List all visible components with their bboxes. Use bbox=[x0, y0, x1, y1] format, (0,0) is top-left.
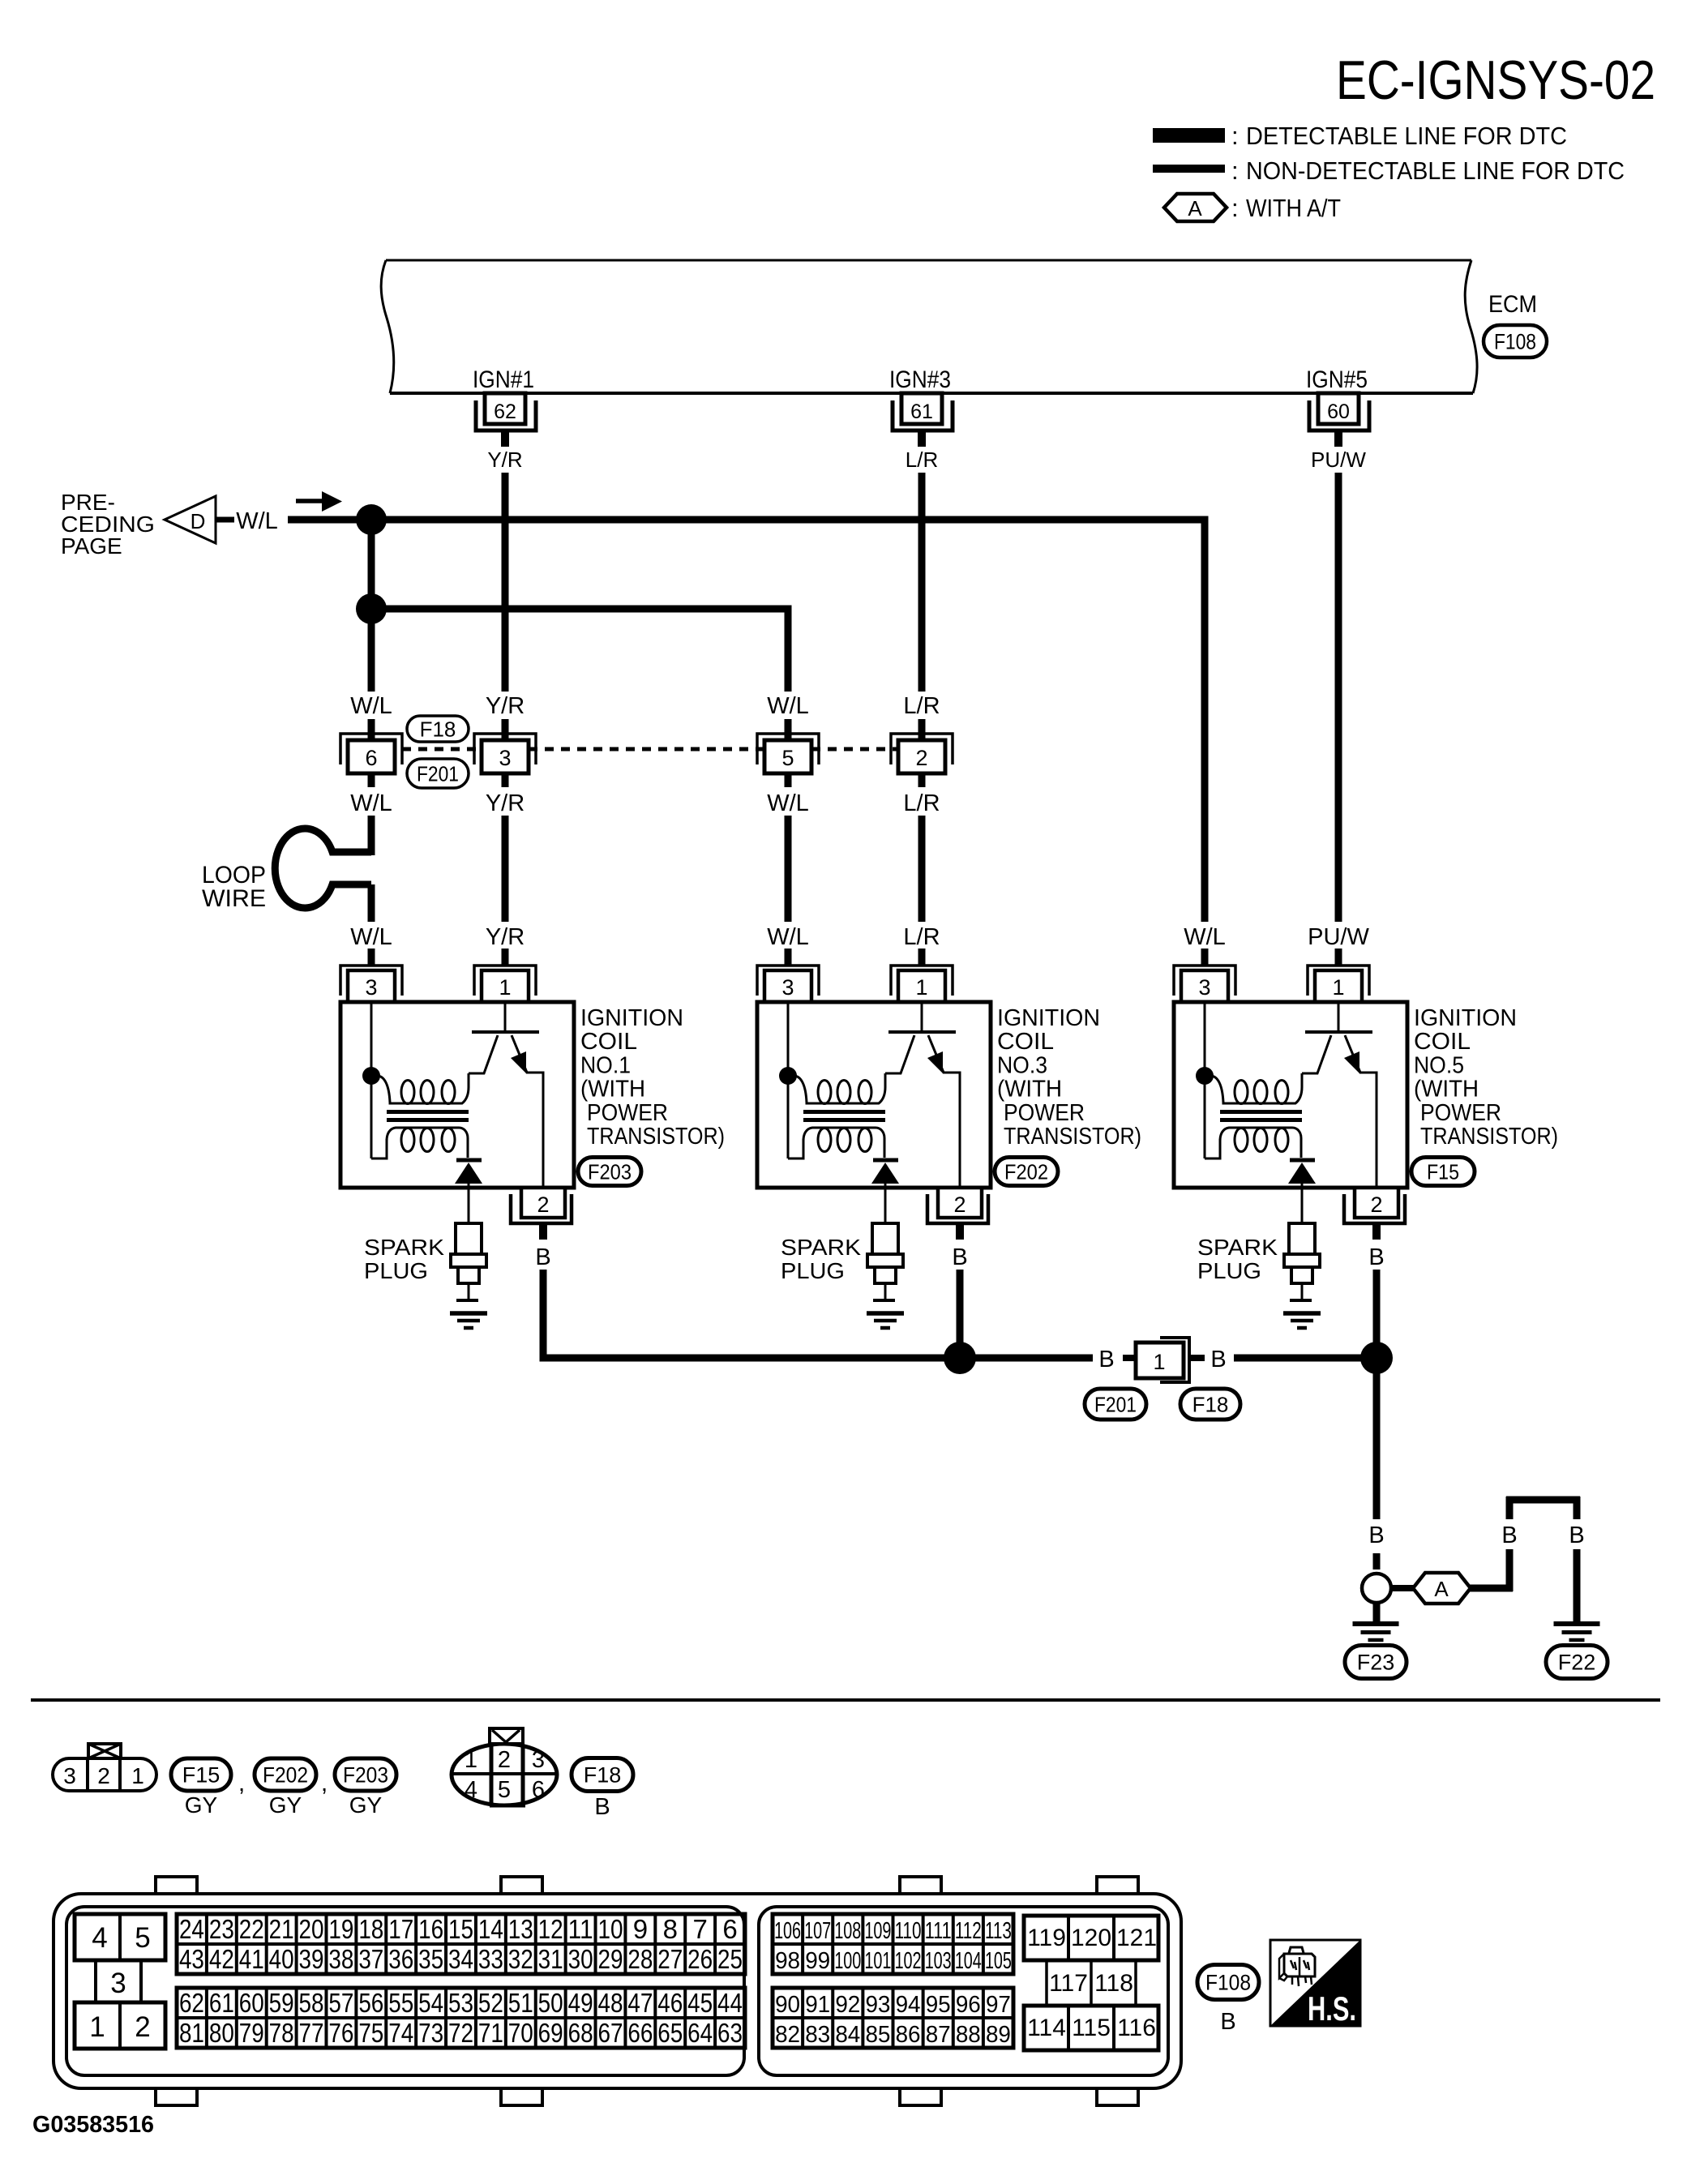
svg-text:2: 2 bbox=[97, 1763, 110, 1788]
svg-text:107: 107 bbox=[804, 1918, 831, 1944]
svg-text:118: 118 bbox=[1094, 1970, 1133, 1997]
svg-text:H.S.: H.S. bbox=[1308, 1989, 1356, 2028]
svg-text:121: 121 bbox=[1116, 1925, 1157, 1951]
svg-text:B: B bbox=[1368, 1244, 1384, 1270]
svg-text:51: 51 bbox=[508, 1988, 533, 2018]
svg-text:W/L: W/L bbox=[767, 790, 809, 816]
svg-text:PAGE: PAGE bbox=[61, 533, 122, 559]
svg-text:6: 6 bbox=[722, 1914, 737, 1944]
svg-text:61: 61 bbox=[209, 1988, 234, 2018]
svg-text:TRANSISTOR): TRANSISTOR) bbox=[1420, 1124, 1558, 1150]
svg-text:,: , bbox=[321, 1770, 328, 1796]
svg-text:GY: GY bbox=[269, 1792, 302, 1818]
svg-text:35: 35 bbox=[418, 1944, 443, 1974]
svg-text:106: 106 bbox=[774, 1918, 801, 1944]
svg-text:TRANSISTOR): TRANSISTOR) bbox=[587, 1124, 725, 1150]
svg-text:POWER: POWER bbox=[1420, 1100, 1501, 1126]
svg-text:27: 27 bbox=[657, 1944, 683, 1974]
svg-text:109: 109 bbox=[864, 1918, 891, 1944]
svg-text:1: 1 bbox=[1332, 975, 1344, 1000]
svg-text:F203: F203 bbox=[588, 1159, 632, 1184]
svg-text:WIRE: WIRE bbox=[202, 885, 266, 912]
svg-text:117: 117 bbox=[1049, 1970, 1088, 1997]
svg-text:W/L: W/L bbox=[236, 508, 278, 534]
svg-text:108: 108 bbox=[834, 1918, 861, 1944]
svg-text:13: 13 bbox=[508, 1914, 533, 1944]
svg-text:37: 37 bbox=[358, 1944, 383, 1974]
svg-text:3: 3 bbox=[365, 975, 377, 1000]
svg-text:1: 1 bbox=[1153, 1350, 1165, 1374]
svg-text:PLUG: PLUG bbox=[781, 1258, 845, 1283]
svg-text:,: , bbox=[238, 1770, 245, 1796]
svg-text:17: 17 bbox=[388, 1914, 413, 1944]
svg-text:39: 39 bbox=[299, 1944, 324, 1974]
svg-text:F202: F202 bbox=[263, 1763, 308, 1788]
svg-text:F202: F202 bbox=[1004, 1159, 1048, 1184]
svg-text:TRANSISTOR): TRANSISTOR) bbox=[1004, 1124, 1141, 1150]
svg-text:NON-DETECTABLE LINE FOR DTC: NON-DETECTABLE LINE FOR DTC bbox=[1246, 156, 1625, 185]
svg-text:B: B bbox=[1220, 2009, 1235, 2035]
svg-text:114: 114 bbox=[1027, 2015, 1066, 2041]
svg-text:97: 97 bbox=[986, 1992, 1011, 2018]
svg-text:A: A bbox=[1188, 196, 1202, 221]
svg-text:5: 5 bbox=[498, 1777, 511, 1803]
svg-text:113: 113 bbox=[985, 1918, 1012, 1944]
svg-text:L/R: L/R bbox=[906, 448, 938, 472]
svg-text:F18: F18 bbox=[420, 717, 456, 741]
svg-text:102: 102 bbox=[895, 1948, 922, 1974]
svg-text:110: 110 bbox=[895, 1918, 922, 1944]
svg-text:COIL: COIL bbox=[580, 1029, 637, 1055]
svg-text:3: 3 bbox=[499, 746, 511, 770]
svg-text:2: 2 bbox=[1370, 1193, 1382, 1217]
svg-text:82: 82 bbox=[775, 2022, 800, 2048]
svg-text:8: 8 bbox=[663, 1914, 678, 1944]
svg-text:69: 69 bbox=[538, 2018, 563, 2048]
svg-text:L/R: L/R bbox=[903, 693, 940, 719]
svg-text:76: 76 bbox=[328, 2018, 353, 2048]
svg-text:2: 2 bbox=[498, 1747, 511, 1773]
svg-text:COIL: COIL bbox=[1414, 1029, 1471, 1055]
svg-text:33: 33 bbox=[478, 1944, 503, 1974]
svg-text:NO.3: NO.3 bbox=[997, 1052, 1047, 1078]
svg-text:31: 31 bbox=[538, 1944, 563, 1974]
svg-text:W/L: W/L bbox=[350, 693, 392, 719]
svg-text:B: B bbox=[1098, 1347, 1114, 1372]
svg-text:2: 2 bbox=[135, 2011, 150, 2043]
svg-text:68: 68 bbox=[568, 2018, 593, 2048]
svg-text:SPARK: SPARK bbox=[364, 1235, 444, 1260]
svg-text:84: 84 bbox=[835, 2022, 860, 2048]
svg-text:20: 20 bbox=[299, 1914, 324, 1944]
svg-text:77: 77 bbox=[299, 2018, 324, 2048]
svg-text:1: 1 bbox=[131, 1763, 144, 1788]
svg-text:115: 115 bbox=[1072, 2015, 1111, 2041]
svg-text:2: 2 bbox=[537, 1193, 549, 1217]
svg-text:64: 64 bbox=[687, 2018, 713, 2048]
svg-text:3: 3 bbox=[1198, 975, 1210, 1000]
svg-text:66: 66 bbox=[627, 2018, 653, 2048]
svg-text:41: 41 bbox=[239, 1944, 264, 1974]
svg-text:55: 55 bbox=[388, 1988, 413, 2018]
svg-text:F203: F203 bbox=[343, 1763, 388, 1788]
svg-text:F18: F18 bbox=[1192, 1392, 1229, 1416]
svg-text:44: 44 bbox=[717, 1988, 743, 2018]
svg-text:(WITH: (WITH bbox=[997, 1077, 1062, 1103]
svg-text:F201: F201 bbox=[417, 761, 459, 786]
svg-text:45: 45 bbox=[687, 1988, 713, 2018]
svg-text:58: 58 bbox=[299, 1988, 324, 2018]
svg-text:38: 38 bbox=[328, 1944, 353, 1974]
svg-text:80: 80 bbox=[209, 2018, 234, 2048]
svg-text:103: 103 bbox=[925, 1948, 952, 1974]
svg-text:12: 12 bbox=[538, 1914, 563, 1944]
svg-text:F23: F23 bbox=[1357, 1651, 1395, 1675]
svg-text:B: B bbox=[1501, 1522, 1517, 1548]
svg-text:1: 1 bbox=[499, 975, 511, 1000]
svg-text:101: 101 bbox=[864, 1948, 891, 1974]
svg-text:2: 2 bbox=[915, 746, 927, 770]
svg-text:48: 48 bbox=[597, 1988, 623, 2018]
svg-text:3: 3 bbox=[110, 1968, 126, 1999]
svg-text:1: 1 bbox=[465, 1747, 477, 1773]
svg-text:18: 18 bbox=[358, 1914, 383, 1944]
svg-text:F108: F108 bbox=[1205, 1971, 1251, 1995]
svg-text:GY: GY bbox=[185, 1792, 218, 1818]
svg-text:Y/R: Y/R bbox=[486, 790, 525, 816]
svg-text:COIL: COIL bbox=[997, 1029, 1054, 1055]
svg-text:75: 75 bbox=[358, 2018, 383, 2048]
svg-text:SPARK: SPARK bbox=[1197, 1235, 1278, 1260]
svg-text:112: 112 bbox=[955, 1918, 982, 1944]
svg-text:96: 96 bbox=[956, 1992, 981, 2018]
svg-text:100: 100 bbox=[834, 1948, 861, 1974]
svg-text:EC-IGNSYS-02: EC-IGNSYS-02 bbox=[1336, 49, 1655, 111]
svg-text:A: A bbox=[1434, 1577, 1449, 1601]
svg-text:1: 1 bbox=[89, 2011, 105, 2043]
svg-text:98: 98 bbox=[775, 1948, 800, 1974]
svg-text:25: 25 bbox=[717, 1944, 743, 1974]
svg-text:W/L: W/L bbox=[767, 693, 809, 719]
svg-text:NO.5: NO.5 bbox=[1414, 1052, 1464, 1078]
svg-text:4: 4 bbox=[465, 1777, 477, 1803]
svg-text:32: 32 bbox=[508, 1944, 533, 1974]
svg-text:91: 91 bbox=[805, 1992, 830, 2018]
svg-text:56: 56 bbox=[358, 1988, 383, 2018]
svg-text:IGNITION: IGNITION bbox=[580, 1005, 683, 1031]
svg-text:34: 34 bbox=[448, 1944, 473, 1974]
svg-text:B: B bbox=[594, 1794, 610, 1820]
svg-text:POWER: POWER bbox=[587, 1100, 668, 1126]
svg-text:5: 5 bbox=[781, 746, 794, 770]
svg-text:62: 62 bbox=[494, 400, 516, 423]
svg-text:86: 86 bbox=[896, 2022, 921, 2048]
svg-text:29: 29 bbox=[597, 1944, 623, 1974]
svg-text:IGN#3: IGN#3 bbox=[889, 366, 951, 393]
svg-text:3: 3 bbox=[532, 1747, 545, 1773]
svg-text:9: 9 bbox=[633, 1914, 648, 1944]
svg-text:PLUG: PLUG bbox=[364, 1258, 428, 1283]
svg-text:46: 46 bbox=[657, 1988, 683, 2018]
svg-text::: : bbox=[1231, 194, 1239, 222]
svg-text:GY: GY bbox=[349, 1792, 383, 1818]
svg-text:30: 30 bbox=[568, 1944, 593, 1974]
svg-text:71: 71 bbox=[478, 2018, 503, 2048]
svg-text:IGN#5: IGN#5 bbox=[1306, 366, 1368, 393]
svg-text:99: 99 bbox=[805, 1948, 830, 1974]
svg-text:PLUG: PLUG bbox=[1197, 1258, 1261, 1283]
svg-text:63: 63 bbox=[717, 2018, 743, 2048]
svg-text:70: 70 bbox=[508, 2018, 533, 2048]
svg-text:90: 90 bbox=[775, 1992, 800, 2018]
svg-text:72: 72 bbox=[448, 2018, 473, 2048]
svg-text:65: 65 bbox=[657, 2018, 683, 2048]
svg-text:10: 10 bbox=[597, 1914, 623, 1944]
svg-text:POWER: POWER bbox=[1004, 1100, 1085, 1126]
svg-text:L/R: L/R bbox=[903, 790, 940, 816]
svg-text::: : bbox=[1231, 156, 1239, 185]
svg-text:105: 105 bbox=[985, 1948, 1012, 1974]
svg-text:11: 11 bbox=[568, 1914, 593, 1944]
svg-text:21: 21 bbox=[269, 1914, 294, 1944]
svg-text:IGNITION: IGNITION bbox=[997, 1005, 1100, 1031]
svg-text:3: 3 bbox=[781, 975, 794, 1000]
svg-text:Y/R: Y/R bbox=[486, 693, 525, 719]
svg-text:85: 85 bbox=[865, 2022, 890, 2048]
svg-text:74: 74 bbox=[388, 2018, 413, 2048]
svg-text:4: 4 bbox=[92, 1922, 107, 1954]
svg-text:87: 87 bbox=[926, 2022, 951, 2048]
svg-text:IGN#1: IGN#1 bbox=[473, 366, 534, 393]
svg-text:B: B bbox=[1569, 1522, 1584, 1548]
svg-text:W/L: W/L bbox=[1184, 924, 1226, 950]
svg-text:60: 60 bbox=[1327, 400, 1350, 423]
svg-text:D: D bbox=[191, 509, 206, 533]
svg-text:22: 22 bbox=[239, 1914, 264, 1944]
svg-text:F201: F201 bbox=[1094, 1392, 1137, 1416]
svg-text:67: 67 bbox=[597, 2018, 623, 2048]
svg-text:B: B bbox=[1210, 1347, 1226, 1372]
svg-text:93: 93 bbox=[865, 1992, 890, 2018]
svg-text:61: 61 bbox=[910, 400, 933, 423]
svg-text:W/L: W/L bbox=[767, 924, 809, 950]
svg-text:57: 57 bbox=[328, 1988, 353, 2018]
svg-text:7: 7 bbox=[692, 1914, 707, 1944]
svg-text:73: 73 bbox=[418, 2018, 443, 2048]
svg-text:NO.1: NO.1 bbox=[580, 1052, 631, 1078]
svg-text:15: 15 bbox=[448, 1914, 473, 1944]
svg-text:F15: F15 bbox=[1427, 1159, 1459, 1184]
svg-text:24: 24 bbox=[179, 1914, 204, 1944]
svg-text:95: 95 bbox=[926, 1992, 951, 2018]
svg-text:92: 92 bbox=[835, 1992, 860, 2018]
svg-text:Y/R: Y/R bbox=[487, 448, 522, 472]
svg-text:49: 49 bbox=[568, 1988, 593, 2018]
svg-text:5: 5 bbox=[135, 1922, 150, 1954]
svg-text:WITH A/T: WITH A/T bbox=[1246, 194, 1341, 222]
svg-text::: : bbox=[1231, 122, 1239, 150]
svg-text:PU/W: PU/W bbox=[1308, 924, 1369, 950]
svg-text:(WITH: (WITH bbox=[580, 1077, 645, 1103]
svg-text:23: 23 bbox=[209, 1914, 234, 1944]
svg-text:3: 3 bbox=[63, 1763, 76, 1788]
svg-text:79: 79 bbox=[239, 2018, 264, 2048]
svg-text:50: 50 bbox=[538, 1988, 563, 2018]
svg-text:1: 1 bbox=[915, 975, 927, 1000]
svg-text:F108: F108 bbox=[1494, 330, 1536, 354]
svg-text:28: 28 bbox=[627, 1944, 653, 1974]
svg-text:Y/R: Y/R bbox=[486, 924, 525, 950]
svg-text:59: 59 bbox=[269, 1988, 294, 2018]
svg-text:6: 6 bbox=[532, 1777, 545, 1803]
svg-text:111: 111 bbox=[925, 1918, 952, 1944]
svg-text:ECM: ECM bbox=[1488, 291, 1537, 318]
svg-text:B: B bbox=[1368, 1522, 1384, 1548]
svg-text:53: 53 bbox=[448, 1988, 473, 2018]
svg-text:L/R: L/R bbox=[903, 924, 940, 950]
svg-text:16: 16 bbox=[418, 1914, 443, 1944]
svg-text:14: 14 bbox=[478, 1914, 503, 1944]
svg-text:G03583516: G03583516 bbox=[32, 2112, 154, 2138]
svg-text:F18: F18 bbox=[584, 1763, 622, 1788]
svg-text:42: 42 bbox=[209, 1944, 234, 1974]
svg-text:6: 6 bbox=[365, 746, 377, 770]
svg-text:F15: F15 bbox=[182, 1763, 221, 1788]
svg-text:60: 60 bbox=[239, 1988, 264, 2018]
svg-text:19: 19 bbox=[328, 1914, 353, 1944]
svg-text:26: 26 bbox=[687, 1944, 713, 1974]
svg-text:89: 89 bbox=[986, 2022, 1011, 2048]
svg-text:2: 2 bbox=[953, 1193, 966, 1217]
svg-text:40: 40 bbox=[269, 1944, 294, 1974]
svg-text:116: 116 bbox=[1117, 2015, 1156, 2041]
svg-text:94: 94 bbox=[896, 1992, 921, 2018]
svg-text:IGNITION: IGNITION bbox=[1414, 1005, 1517, 1031]
svg-text:36: 36 bbox=[388, 1944, 413, 1974]
svg-text:F22: F22 bbox=[1558, 1651, 1596, 1675]
svg-text:43: 43 bbox=[179, 1944, 204, 1974]
svg-text:83: 83 bbox=[805, 2022, 830, 2048]
svg-text:104: 104 bbox=[955, 1948, 982, 1974]
svg-text:W/L: W/L bbox=[350, 790, 392, 816]
svg-text:W/L: W/L bbox=[350, 924, 392, 950]
svg-text:81: 81 bbox=[179, 2018, 204, 2048]
svg-text:54: 54 bbox=[418, 1988, 443, 2018]
svg-text:52: 52 bbox=[478, 1988, 503, 2018]
svg-text:119: 119 bbox=[1027, 1925, 1066, 1951]
svg-text:120: 120 bbox=[1071, 1925, 1111, 1951]
svg-text:B: B bbox=[952, 1244, 967, 1270]
svg-text:(WITH: (WITH bbox=[1414, 1077, 1479, 1103]
svg-text:DETECTABLE LINE FOR DTC: DETECTABLE LINE FOR DTC bbox=[1246, 122, 1567, 150]
svg-text:47: 47 bbox=[627, 1988, 653, 2018]
svg-text:B: B bbox=[535, 1244, 550, 1270]
svg-text:78: 78 bbox=[269, 2018, 294, 2048]
svg-text:PU/W: PU/W bbox=[1311, 448, 1366, 472]
svg-text:SPARK: SPARK bbox=[781, 1235, 861, 1260]
svg-text:62: 62 bbox=[179, 1988, 204, 2018]
svg-text:88: 88 bbox=[956, 2022, 981, 2048]
